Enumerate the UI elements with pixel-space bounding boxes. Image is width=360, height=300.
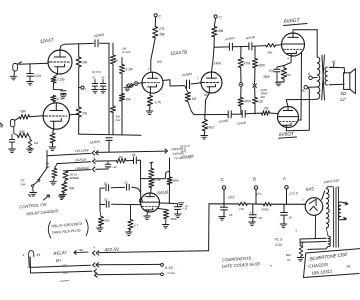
- svg-text:12″: 12″: [340, 96, 347, 102]
- svg-text:.05: .05: [101, 76, 105, 80]
- svg-text:2.2uf: 2.2uf: [33, 74, 42, 78]
- svg-text:-.02: -.02: [112, 165, 118, 169]
- svg-text:.02: .02: [124, 181, 129, 185]
- svg-text:4.7: 4.7: [134, 224, 139, 228]
- svg-text:2.2ky: 2.2ky: [56, 78, 65, 82]
- svg-text:1M: 1M: [34, 141, 39, 145]
- svg-text:C: C: [219, 16, 222, 20]
- svg-text:16: 16: [259, 216, 263, 220]
- svg-text:470k: 470k: [244, 62, 251, 66]
- svg-text:60k: 60k: [69, 187, 75, 191]
- svg-text:2nd: 2nd: [115, 118, 121, 122]
- svg-text:6X5: 6X5: [306, 186, 315, 192]
- svg-text:AL: AL: [346, 265, 351, 269]
- svg-text:SPEED: SPEED: [70, 176, 79, 180]
- svg-text:300k: 300k: [258, 64, 265, 68]
- svg-text:YEL: YEL: [78, 248, 84, 252]
- svg-text:.02: .02: [92, 76, 96, 80]
- svg-text:(3) P+0: (3) P+0: [180, 144, 191, 149]
- svg-text:390k: 390k: [172, 179, 179, 183]
- svg-text:22uf: 22uf: [227, 195, 236, 200]
- svg-text:..: ..: [180, 268, 182, 272]
- svg-text:BLACK: BLACK: [75, 157, 87, 162]
- svg-text:97v: 97v: [157, 60, 163, 64]
- svg-text:25k: 25k: [263, 106, 270, 110]
- svg-text:140v: 140v: [214, 62, 222, 66]
- svg-text:+: +: [249, 211, 251, 215]
- svg-text:6.3V: 6.3V: [276, 243, 283, 247]
- svg-text:56k: 56k: [268, 51, 273, 55]
- svg-text:350v: 350v: [263, 75, 270, 79]
- svg-text:271.8: 271.8: [288, 191, 298, 196]
- svg-text:470k: 470k: [244, 100, 251, 104]
- svg-text:16: 16: [229, 213, 233, 217]
- svg-text:C: C: [221, 177, 224, 182]
- svg-text:B: B: [253, 177, 256, 182]
- svg-text:1M: 1M: [192, 97, 197, 101]
- svg-text:5.1M: 5.1M: [126, 68, 133, 72]
- svg-text:4.7k: 4.7k: [57, 97, 64, 101]
- svg-text:YEL: YEL: [62, 264, 68, 268]
- svg-text:45: 45: [37, 253, 41, 257]
- svg-text:10k/2: 10k/2: [207, 126, 215, 130]
- svg-text:to htrs: to htrs: [168, 271, 176, 275]
- svg-text:250: 250: [285, 73, 291, 77]
- svg-text:A: A: [283, 176, 286, 181]
- svg-text:20k: 20k: [81, 112, 88, 116]
- svg-text:(2): (2): [287, 258, 291, 262]
- svg-text:on 2nd: on 2nd: [122, 50, 131, 54]
- svg-text:1M POt: 1M POt: [92, 70, 102, 74]
- svg-text:.02: .02: [103, 181, 108, 185]
- svg-text:8Ω: 8Ω: [341, 91, 347, 96]
- svg-text:BLK: BLK: [63, 271, 68, 275]
- svg-text:8200: 8200: [262, 208, 269, 212]
- svg-text:30k: 30k: [82, 61, 88, 65]
- svg-text:560: 560: [104, 219, 109, 223]
- svg-text:27k: 27k: [158, 27, 165, 31]
- svg-text:68k: 68k: [218, 29, 224, 33]
- svg-text:.05: .05: [131, 153, 136, 157]
- svg-text:16: 16: [289, 216, 293, 220]
- svg-text:25k: 25k: [260, 95, 266, 99]
- svg-text:B+: B+: [56, 258, 62, 263]
- svg-text:22k: 22k: [257, 100, 264, 104]
- svg-text:390k: 390k: [170, 217, 177, 221]
- svg-text:13k: 13k: [239, 207, 244, 211]
- svg-text:422.5V: 422.5V: [104, 247, 120, 253]
- svg-text:470k: 470k: [154, 178, 161, 182]
- svg-text:C: C: [159, 15, 162, 19]
- svg-text:6AU6: 6AU6: [157, 190, 169, 196]
- svg-text:9.7k: 9.7k: [155, 101, 162, 105]
- svg-text:BLK: BLK: [286, 253, 291, 257]
- svg-text:1: 1: [23, 253, 25, 257]
- svg-text:36k: 36k: [114, 59, 119, 63]
- svg-text:.02: .02: [104, 198, 109, 202]
- svg-text:30k: 30k: [126, 98, 132, 102]
- svg-text:68k: 68k: [21, 110, 27, 114]
- svg-text:68k: 68k: [160, 33, 166, 37]
- svg-text:1M: 1M: [119, 155, 124, 159]
- svg-text:FIL.S: FIL.S: [275, 238, 283, 242]
- svg-text:6.3V: 6.3V: [165, 265, 173, 270]
